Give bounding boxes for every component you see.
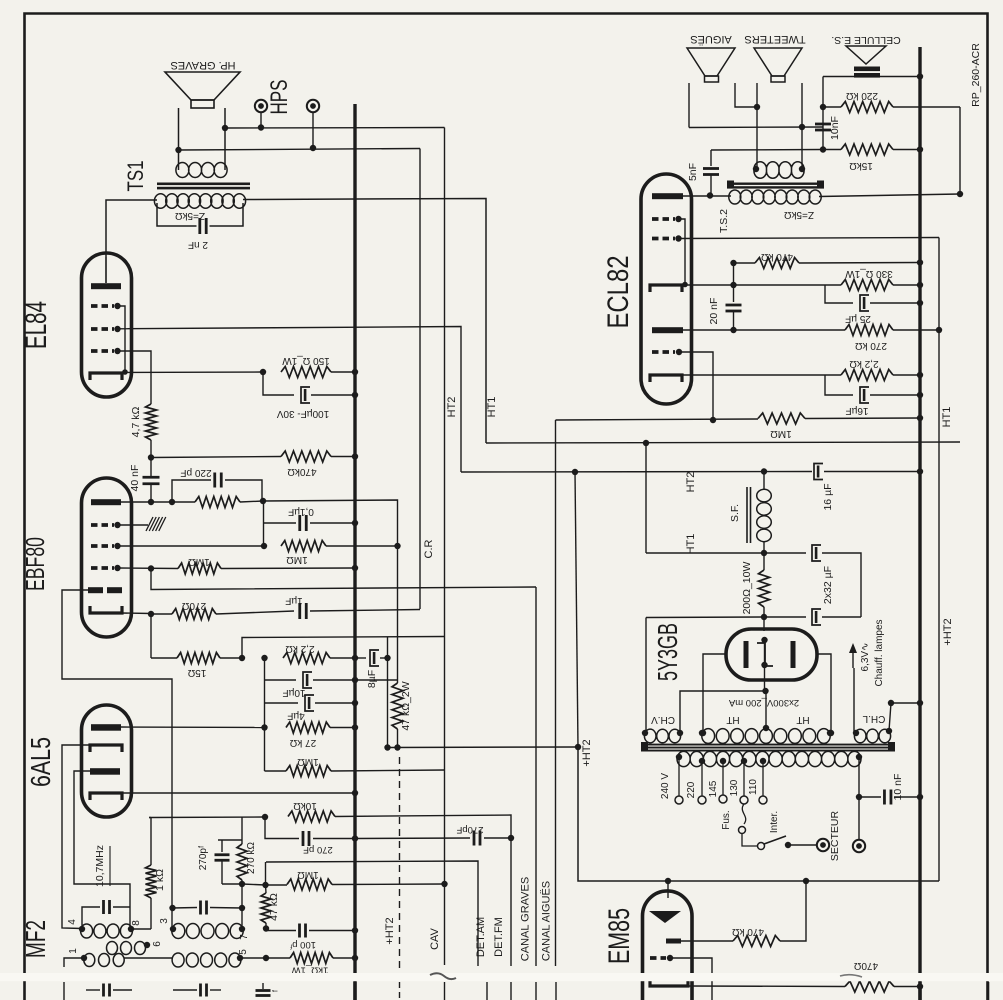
capacitor bottom c (262, 983, 264, 989)
node on bus (917, 259, 923, 265)
svg-text:110: 110 (748, 779, 759, 795)
wire plate1 to HT winding (703, 654, 726, 733)
wire (959, 107, 961, 194)
node pin1 (81, 955, 87, 961)
svg-text:16 µF: 16 µF (822, 483, 834, 510)
svg-text:470 kΩ: 470 kΩ (761, 251, 793, 262)
EBF80 diode plates (88, 587, 103, 593)
EL84 grid g1 (91, 327, 114, 331)
wire to 100uF (263, 372, 294, 395)
resistor 4,7kohm (146, 404, 157, 440)
wire (260, 113, 262, 128)
node (575, 744, 581, 750)
resistor 470kohm EM85 (681, 940, 733, 942)
wire (801, 83, 803, 169)
node on bus (352, 369, 358, 375)
node pin3 (170, 926, 176, 932)
node (761, 468, 767, 474)
node (761, 550, 767, 556)
node (642, 730, 648, 736)
resistor 220kohm (823, 106, 841, 108)
EBF80 grid g1 (91, 523, 114, 527)
wire HPS2 to vertical (179, 149, 421, 151)
node (148, 565, 154, 571)
svg-text:270 pF: 270 pF (303, 844, 333, 855)
wire EM85 cathode (688, 985, 845, 988)
svg-text:27 kΩ: 27 kΩ (289, 737, 316, 748)
svg-text:+HT2: +HT2 (384, 917, 396, 944)
node (643, 440, 649, 446)
node (572, 469, 578, 475)
node (730, 327, 736, 333)
wire into EM85 (667, 881, 669, 898)
node (508, 835, 514, 841)
ECL82 anode 2 (652, 327, 683, 333)
svg-text:+HT2: +HT2 (581, 739, 593, 766)
fuse Fus. (742, 804, 745, 824)
node (260, 369, 266, 375)
wire (387, 658, 389, 748)
transformer core (643, 744, 894, 746)
wire HT1b row (646, 616, 764, 619)
node pin4 (79, 926, 85, 932)
svg-text:S.F.: S.F. (729, 504, 741, 522)
ECL82 grid g3 (652, 350, 675, 354)
svg-text:DET.AM: DET.AM (475, 917, 487, 957)
node (263, 925, 269, 931)
svg-text:270 kΩ: 270 kΩ (855, 340, 887, 351)
choke S.F. (746, 487, 748, 543)
capacitor 100uF-30V (301, 387, 310, 403)
EL84 cathode (90, 373, 122, 380)
svg-text:470kΩ: 470kΩ (287, 466, 317, 477)
svg-text:HT: HT (726, 714, 739, 725)
node (803, 878, 809, 884)
svg-text:220 pF: 220 pF (180, 467, 211, 478)
node HT center tap (763, 725, 769, 731)
heater arrow 6,3V (853, 668, 855, 733)
5Y3GB filament (757, 643, 773, 666)
wire to DET.AM line (266, 861, 478, 966)
5Y3GB plate 2 (791, 641, 796, 668)
wire 10k to DET.FM line (335, 815, 511, 966)
bus right (ground rail) (918, 47, 921, 1000)
transformer T.S.2 core (727, 183, 824, 185)
wire (151, 457, 281, 458)
wire speaker left (178, 108, 180, 170)
svg-text:6: 6 (152, 941, 163, 947)
wire (312, 113, 314, 149)
svg-text:470 kΩ: 470 kΩ (732, 926, 764, 937)
node on bus (917, 300, 923, 306)
svg-text:CANAL AIGUËS: CANAL AIGUËS (541, 881, 553, 961)
resistor 1Mohm 6AL5 (265, 770, 287, 772)
transformer MF2-1 capacitor (82, 907, 100, 929)
svg-text:HT1: HT1 (941, 407, 953, 428)
svg-text:10nF: 10nF (829, 116, 841, 140)
svg-text:T.S.2: T.S.2 (718, 209, 730, 233)
svg-text:4µF: 4µF (287, 710, 304, 721)
node on bus (917, 73, 923, 79)
node (886, 728, 892, 734)
wire HPS to vertical (225, 127, 445, 130)
transformer TS1 secondary coil (176, 163, 227, 178)
node (856, 794, 862, 800)
capacitor 270pF left (265, 817, 299, 839)
capacitor 2x32uF b (764, 616, 806, 618)
wire (689, 126, 823, 129)
node (799, 166, 805, 172)
node (263, 955, 269, 961)
svg-text:1MΩ: 1MΩ (286, 554, 308, 565)
wire anode row to 47k 2W chain (263, 500, 398, 546)
node (754, 104, 760, 110)
capacitor 20nF (733, 263, 735, 302)
svg-text:EL84: EL84 (20, 301, 53, 349)
svg-text:4,7 kΩ: 4,7 kΩ (130, 407, 142, 438)
node (856, 754, 862, 760)
capacitor 5nF (710, 150, 712, 166)
node on bus (917, 372, 923, 378)
svg-text:HT: HT (796, 714, 809, 725)
svg-text:HP. GRAVES: HP. GRAVES (170, 59, 235, 71)
wire +HT2 horizontal (388, 746, 579, 749)
capacitor 10nF top (815, 123, 831, 126)
svg-text:HPS: HPS (266, 80, 293, 115)
svg-text:25 µF: 25 µF (845, 313, 871, 324)
node (707, 192, 713, 198)
node (957, 191, 963, 197)
svg-text:MF2: MF2 (20, 920, 51, 958)
wire box left to CH.V (645, 618, 647, 734)
node on bus (917, 983, 923, 989)
svg-text:0,1µF: 0,1µF (288, 506, 314, 517)
node (261, 655, 267, 661)
svg-text:Fus.: Fus. (721, 810, 732, 829)
capacitor 10nF psu (859, 796, 881, 798)
svg-text:145: 145 (708, 780, 719, 797)
wire CH.L to bus (889, 703, 920, 731)
transformer MF2-1 bottom coil (84, 954, 124, 967)
svg-text:6,3V∿: 6,3V∿ (860, 643, 871, 672)
capacitor 2x32uF a (812, 545, 821, 561)
node on bus (917, 415, 923, 421)
capacitor 8uF (355, 657, 366, 659)
resistor 1Mohm EBF80 (281, 541, 326, 552)
tube ECL82 (641, 174, 692, 404)
svg-text:EBF80: EBF80 (20, 537, 50, 591)
svg-text:200Ω_10W: 200Ω_10W (741, 562, 753, 615)
capacitor 100pF (265, 929, 267, 932)
svg-text:2x300V_200 mA: 2x300V_200 mA (728, 697, 799, 708)
wire primary right to SECTEUR (858, 757, 860, 840)
resistor 220kohm (195, 497, 240, 508)
wire plate2 to MF2 top (74, 771, 130, 929)
node on bus (352, 835, 358, 841)
node (169, 499, 175, 505)
EM85 grid (650, 956, 666, 960)
svg-text:8µF: 8µF (366, 670, 378, 688)
svg-text:HT2: HT2 (685, 472, 697, 493)
node on bus (352, 392, 358, 398)
svg-text:TWEETERS: TWEETERS (744, 33, 805, 45)
EBF80 anode (91, 499, 121, 505)
wire 47k2W top (397, 546, 399, 683)
svg-text:1MΩ: 1MΩ (770, 428, 792, 439)
switch lever (764, 836, 786, 844)
speaker HP GRAVES (165, 72, 240, 100)
svg-text:130: 130 (729, 779, 740, 796)
wire g1 to cathode (679, 219, 686, 285)
node on bus (352, 724, 358, 730)
node on bus (917, 468, 923, 474)
capacitor 4uF (265, 702, 299, 704)
wire g2 to +HT2 rail (679, 238, 940, 239)
wire +HT2 bottom (578, 747, 939, 881)
speaker TWEETERS (754, 48, 802, 76)
capacitor 220pF (172, 480, 211, 502)
node (730, 282, 736, 288)
node (260, 498, 266, 504)
svg-text:3: 3 (159, 918, 170, 924)
wire 5nF top (711, 149, 823, 152)
wire g3 (679, 352, 713, 420)
speaker AIGUES (687, 48, 735, 76)
capacitor 1uF (298, 603, 301, 619)
EM85 grid bar (666, 939, 681, 944)
capacitor 40nF (150, 458, 152, 477)
tube 6AL5 (82, 705, 132, 817)
svg-text:270pF: 270pF (456, 824, 483, 835)
node (262, 814, 268, 820)
wire to 16uF (825, 375, 853, 395)
svg-text:1MΩ: 1MΩ (188, 556, 210, 567)
chassis ground hatch (146, 517, 153, 531)
node (148, 454, 154, 460)
resistor 270kohm ECL82 (845, 325, 893, 336)
node (785, 842, 791, 848)
node (239, 905, 245, 911)
resistor 330ohm 1W (841, 280, 893, 291)
EBF80 grid g2 (91, 544, 114, 548)
resistor 15kohm (823, 149, 841, 151)
capacitor bottom b (173, 989, 197, 991)
wire cathode2 to bus (121, 792, 355, 794)
node on bus (917, 146, 923, 152)
transformer T.S.2 primary coil (729, 190, 821, 204)
node on bus (917, 700, 923, 706)
resistor 150ohm 1W (281, 367, 331, 378)
svg-text:270pᶠ: 270pᶠ (198, 845, 209, 870)
svg-text:220: 220 (686, 781, 697, 798)
node (936, 327, 942, 333)
capacitor 0,1uF (263, 501, 265, 546)
capacitor 270pF right (355, 837, 470, 840)
node (677, 730, 683, 736)
wire cell row (823, 76, 920, 78)
node (799, 124, 805, 130)
wire CANAL AIGUES vertical (555, 420, 557, 966)
transformer MF2-2 coil (172, 923, 243, 938)
resistor 1Mohm g3 row (178, 563, 221, 574)
svg-text:1: 1 (68, 948, 79, 954)
EL84 grid g2 (91, 304, 114, 308)
EL84 anode (91, 283, 121, 289)
node (239, 926, 245, 932)
resistor 1kohm 1W (266, 957, 290, 959)
wire cathode1 to MF2 coil (62, 745, 91, 929)
svg-text:20 nF: 20 nF (708, 298, 720, 325)
svg-text:RP_260-ACR: RP_260-ACR (970, 43, 982, 107)
wire TS1 primary to HT1 line (243, 199, 486, 444)
node (239, 881, 245, 887)
wire C.R line to canal graves (151, 569, 536, 590)
wire g2 to cathode (118, 306, 126, 372)
transformer winding CH.V (644, 729, 680, 743)
svg-text:15Ω: 15Ω (187, 667, 206, 678)
transformer TS1 primary coil (154, 194, 245, 208)
wire g3 to 4.7k (118, 351, 152, 404)
svg-text:1µF: 1µF (285, 595, 302, 606)
scan white band (0, 973, 1003, 981)
wire (688, 83, 690, 128)
TS1 core (157, 183, 250, 186)
svg-text:DET.FM: DET.FM (493, 917, 505, 957)
wire HT2 long (461, 471, 812, 474)
EBF80 grid g3 (91, 566, 114, 570)
transformer MF2-2 capacitor (172, 907, 197, 910)
svg-text:1MΩ: 1MΩ (297, 756, 319, 767)
svg-text:CAV: CAV (429, 927, 441, 949)
node (222, 125, 228, 131)
svg-text:10kΩ: 10kΩ (293, 800, 317, 811)
resistor 1kohm (149, 817, 151, 819)
resistor 10kohm (288, 811, 335, 822)
node on bus (352, 565, 358, 571)
svg-text:100µF- 30V: 100µF- 30V (276, 408, 329, 419)
svg-text:470Ω: 470Ω (853, 960, 878, 971)
node on bus (352, 700, 358, 706)
ECL82 cathode 1 (650, 285, 682, 292)
wire CH.V to filament center (680, 691, 766, 733)
wire to 25uF (825, 285, 853, 303)
wire (756, 83, 758, 169)
svg-text:47 kΩ_2W: 47 kΩ_2W (400, 681, 412, 730)
svg-text:8: 8 (131, 920, 142, 926)
resistor 47kohm MF2 (261, 893, 271, 923)
svg-text:330 Ω_1W: 330 Ω_1W (845, 268, 893, 279)
svg-text:2,2 kΩ: 2,2 kΩ (285, 643, 315, 654)
node (730, 260, 736, 266)
node (682, 282, 688, 288)
node (828, 730, 834, 736)
transformer MF2-1 coil (81, 924, 133, 938)
terminal HPS 2 (307, 100, 319, 112)
wire (735, 83, 757, 107)
node (753, 166, 759, 172)
6AL5 cathode 1 (90, 745, 122, 752)
node (148, 499, 154, 505)
wire (822, 77, 824, 150)
capacitor 10uF (265, 679, 297, 681)
svg-text:270 kΩ: 270 kΩ (246, 842, 257, 874)
svg-text:240 V: 240 V (660, 773, 671, 799)
svg-text:HT1: HT1 (486, 397, 498, 418)
svg-text:4: 4 (67, 919, 78, 925)
svg-text:100 pᶠ: 100 pᶠ (290, 939, 316, 950)
node (700, 730, 706, 736)
node on bus (352, 955, 358, 961)
terminal SECTEUR 1 (817, 839, 829, 851)
capacitor + resistor 270pF/270kohm (218, 839, 242, 841)
svg-text:10µF: 10µF (283, 687, 306, 698)
capacitor bottom a (86, 989, 100, 991)
node (384, 655, 390, 661)
6AL5 cathode 2 (90, 793, 122, 800)
svg-text:SECTEUR: SECTEUR (829, 811, 841, 862)
tube EL84 (82, 253, 132, 397)
6AL5 plate 2 (90, 768, 120, 775)
svg-text:15kΩ: 15kΩ (849, 160, 873, 171)
tube EBF80 (82, 478, 132, 637)
svg-text:1 kΩ: 1 kΩ (154, 869, 166, 891)
svg-text:CH.L: CH.L (862, 713, 885, 724)
wire (645, 443, 647, 553)
svg-text:HT1: HT1 (685, 534, 697, 555)
transformer MF2-1 link coil (107, 942, 146, 955)
svg-text:CELLULE E.S.: CELLULE E.S. (831, 34, 900, 46)
node (262, 882, 268, 888)
node pin5 (237, 955, 243, 961)
6AL5 plate 1 (91, 724, 121, 731)
transformer primary winding (677, 751, 861, 766)
transformer winding CH.L (854, 729, 890, 743)
wire y817 row (149, 816, 265, 819)
electrostatic cell (846, 46, 886, 64)
svg-text:2 nF: 2 nF (188, 239, 208, 250)
svg-text:CANAL GRAVES: CANAL GRAVES (520, 877, 532, 961)
wire HT1 row (646, 552, 764, 554)
svg-text:2,2 kΩ: 2,2 kΩ (849, 358, 879, 369)
resistor 2,2kohm (283, 653, 330, 664)
wire to 5Y3GB (763, 617, 765, 631)
svg-text:150 Ω_1W: 150 Ω_1W (282, 355, 330, 366)
wire (355, 679, 398, 681)
node (710, 417, 716, 423)
node (239, 655, 245, 661)
wire (265, 862, 267, 885)
node (261, 724, 267, 730)
node on bus (917, 282, 923, 288)
resistor 27kohm (286, 722, 330, 733)
wire +HT2 right rail (938, 238, 940, 882)
svg-text:+HT2: +HT2 (942, 618, 954, 645)
node on bus (917, 392, 923, 398)
EM85 cathode (650, 979, 688, 986)
wire TS1 to EL84 anode (106, 200, 157, 257)
svg-text:47 kΩ: 47 kΩ (268, 893, 280, 921)
node (820, 104, 826, 110)
wire diode loop down to MF2 (62, 590, 172, 929)
5Y3GB plate 1 (744, 641, 749, 668)
svg-text:10,7MHz: 10,7MHz (94, 845, 106, 887)
wire speaker right (224, 108, 226, 170)
wire plate2 to HT winding (817, 654, 831, 733)
node on bus (352, 927, 358, 933)
tube 5Y3GB (726, 629, 817, 680)
resistor 15ohm (150, 614, 152, 658)
svg-text:TS1: TS1 (123, 161, 148, 192)
